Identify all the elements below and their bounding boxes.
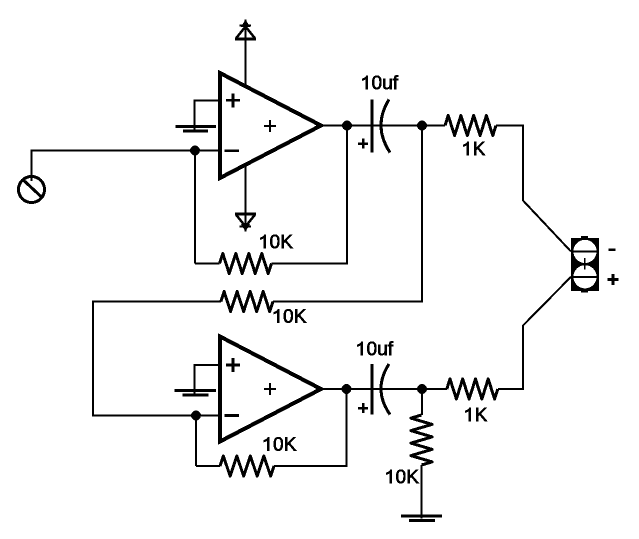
node A (inverting input of U1) [190, 146, 200, 156]
wire node F down to R6 [421, 389, 423, 415]
speaker LS1 [571, 236, 599, 293]
ground G3 [401, 516, 442, 521]
node B (output of U1) [342, 121, 352, 131]
resistor R2 10K cross-feed [221, 292, 273, 312]
label R1 10K [261, 235, 293, 249]
capacitor C1 10uf [358, 100, 390, 153]
wire U1 output [322, 125, 445, 127]
resistor R6 10K to ground [411, 415, 432, 465]
label R4 10K [264, 437, 296, 451]
ground G2 [175, 390, 217, 395]
resistor R1 10K feedback U1 [220, 254, 272, 274]
wire U1 noninverting input to ground [195, 100, 221, 129]
wire feedback rail right and up to U2 output [274, 389, 347, 466]
node D (inverting input of U2) [191, 411, 201, 421]
wire R2 left down to U2 inverting input [93, 302, 221, 416]
label speaker plus [608, 274, 619, 285]
wire R6 to ground [421, 465, 423, 519]
wire feedback rail left U2 [196, 465, 220, 467]
U1 plus input sign [226, 93, 240, 107]
ground G1 [175, 126, 216, 131]
op-amp U2 [220, 337, 321, 442]
wire U2 output [322, 388, 447, 390]
U1 minus input sign [225, 149, 240, 152]
label C2 10uf [358, 341, 394, 355]
resistor R3 1K top [445, 116, 496, 136]
U2 plus input sign [226, 358, 240, 372]
wire feedback rail left [195, 263, 220, 265]
input terminal J1 [19, 177, 45, 203]
wire V+ to V- feedthrough [245, 20, 247, 232]
node F (cap to R5/R6 junction) [417, 384, 427, 394]
U2 minus input sign [225, 414, 240, 417]
label R2 10K [274, 309, 306, 323]
label speaker minus [609, 248, 616, 251]
label R3 1K [464, 142, 486, 155]
label R6 10K [387, 470, 419, 484]
resistor R4 10K feedback U2 [220, 456, 274, 476]
label C1 10uf [363, 75, 399, 89]
node C (cap to R2/R3 junction) [417, 121, 427, 131]
wire R5 to speaker plus [498, 277, 571, 389]
wire U2 noninverting input to ground [195, 365, 221, 393]
V- supply symbol [235, 214, 256, 231]
capacitor C2 10uf [358, 364, 390, 415]
label R5 1K [466, 408, 488, 421]
V+ supply symbol [235, 20, 256, 39]
U1 output polarity plus [264, 120, 276, 132]
wire node C down to R2 [273, 126, 422, 302]
wire R3 to speaker minus [496, 126, 571, 252]
wire node A down to feedback rail [194, 151, 196, 264]
op-amp U1 [220, 73, 321, 178]
wire node D down to feedback rail [195, 416, 197, 467]
U2 output polarity plus [264, 383, 276, 395]
wire input to node [32, 151, 221, 182]
resistor R5 1K bottom [447, 379, 498, 399]
node E (output of U2) [342, 384, 352, 394]
wire feedback rail right and up to output [272, 126, 348, 264]
